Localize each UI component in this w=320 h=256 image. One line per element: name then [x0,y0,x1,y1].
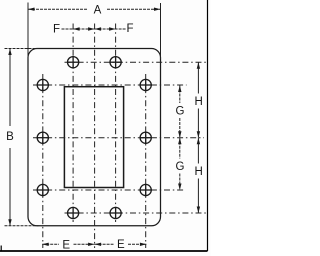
svg-text:H: H [194,166,202,178]
arrow H bottom up [197,138,200,145]
svg-text:F: F [53,24,60,36]
bottom rule [0,250,208,252]
svg-text:B: B [6,131,14,143]
dim B extension bottom [5,225,39,227]
arrowheads [8,8,200,247]
centerline row y=137.7 [33,137,204,139]
waveguide opening rectangle [64,87,123,188]
arrow F span2 right [109,27,116,30]
dim G bottom line [179,138,181,159]
centerline column x=145.7 [145,74,147,248]
arrow A right [154,8,161,11]
centerline row y=85 [33,84,187,86]
svg-text:G: G [176,106,185,118]
dim H top line [197,62,199,93]
centerline column x=94.6 (plate axis) [94,24,96,249]
arrow H top up [197,62,200,68]
svg-text:G: G [176,161,185,173]
bolt hole top-left [67,56,79,68]
right border rule [207,0,209,251]
bolt hole left lower [37,184,49,196]
centerline column x=73.1 [72,24,74,223]
bolt hole bottom-right [110,207,122,219]
dim B extension top [5,48,39,50]
arrow E span2 right [140,243,147,246]
bolt hole top-right [110,56,122,68]
centerline row y=190 [33,189,185,191]
bolt hole left middle [37,132,49,144]
arrow A left [28,8,35,11]
arrow G bottom down [178,184,181,191]
arrow G top up [178,86,181,93]
svg-text:E: E [117,239,125,251]
arrow E span1 right [88,243,95,246]
dim G top line [179,86,181,104]
bolt hole right lower [140,184,152,196]
left rule tick [0,246,2,252]
svg-text:H: H [194,96,202,108]
dim F right line [95,28,127,30]
plate outline [28,49,161,226]
arrow H top down [197,131,200,138]
dim H bottom line [197,138,199,164]
bolt hole right upper [140,79,152,91]
centerline column x=42.8 [42,74,44,248]
centerline column x=115.6 [115,24,117,223]
svg-text:E: E [62,239,70,251]
svg-text:F: F [126,23,133,35]
bolt hole bottom-left [67,207,79,219]
dim E left line [42,243,59,245]
arrow E span1 left [42,243,49,246]
dim A extension left [27,3,29,60]
dim A extension right [160,3,162,59]
arrow G bottom up [178,138,181,145]
arrow F span2 left [95,27,102,30]
svg-text:A: A [94,5,102,17]
bolt hole right middle [140,132,152,144]
arrow F span1 left [73,27,80,30]
arrow H bottom down [197,207,200,214]
bolt hole left upper [37,79,49,91]
dim F left line [62,28,95,30]
dim E right line [95,243,114,245]
centerline row y=62.2 [65,61,208,63]
dim B line [9,49,11,127]
dim A line [28,8,88,10]
arrow E span2 left [95,243,102,246]
arrow B top [8,49,11,56]
centerline row y=213 [65,212,208,214]
arrow G top down [178,131,181,138]
arrow B bottom [8,219,11,226]
arrow F span1 right [88,27,95,30]
